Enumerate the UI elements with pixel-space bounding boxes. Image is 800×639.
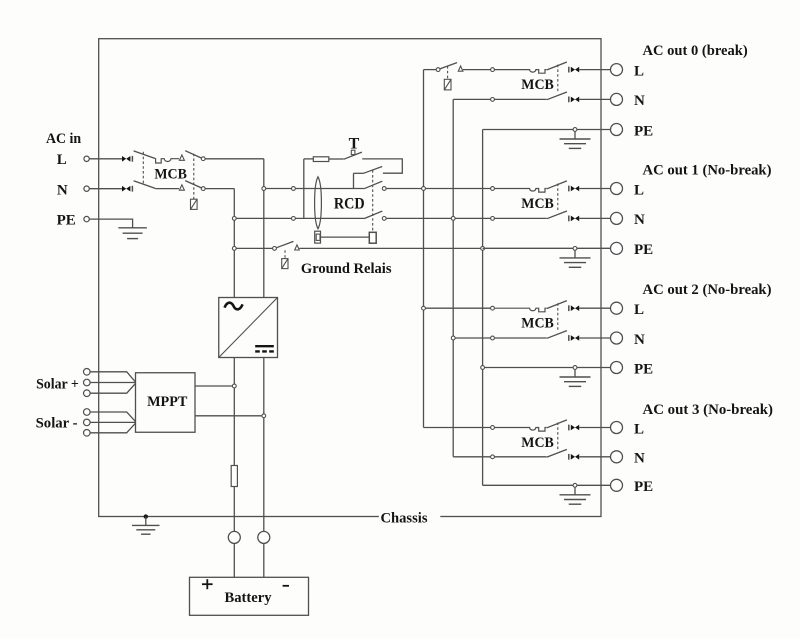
svg-text:L: L	[634, 302, 644, 318]
svg-text:N: N	[57, 182, 68, 198]
svg-text:RCD: RCD	[334, 195, 365, 212]
svg-text:N: N	[634, 332, 645, 348]
svg-text:PE: PE	[57, 213, 76, 229]
svg-text:T: T	[349, 135, 360, 152]
svg-text:PE: PE	[634, 242, 653, 258]
svg-text:MCB: MCB	[521, 77, 554, 93]
svg-text:PE: PE	[634, 123, 653, 139]
svg-text:AC out 1 (No-break): AC out 1 (No-break)	[643, 162, 772, 178]
svg-text:L: L	[634, 421, 644, 437]
svg-text:N: N	[634, 451, 645, 467]
svg-text:N: N	[634, 93, 645, 109]
svg-text:MCB: MCB	[521, 435, 554, 451]
svg-text:AC out 2 (No-break): AC out 2 (No-break)	[643, 282, 772, 298]
svg-text:Battery: Battery	[225, 590, 272, 606]
svg-text:Chassis: Chassis	[381, 511, 428, 527]
svg-text:PE: PE	[634, 479, 653, 495]
svg-text:AC out 0 (break): AC out 0 (break)	[643, 43, 748, 59]
svg-text:N: N	[634, 212, 645, 228]
svg-text:MCB: MCB	[154, 166, 187, 182]
svg-text:MPPT: MPPT	[147, 394, 187, 410]
svg-text:AC out 3 (No-break): AC out 3 (No-break)	[643, 402, 774, 418]
svg-text:MCB: MCB	[521, 316, 554, 332]
svg-text:AC in: AC in	[46, 131, 82, 147]
svg-text:PE: PE	[634, 361, 653, 377]
svg-text:MCB: MCB	[521, 196, 554, 212]
svg-text:L: L	[57, 152, 67, 168]
svg-text:L: L	[634, 182, 644, 198]
svg-text:Ground Relais: Ground Relais	[301, 261, 392, 277]
svg-text:L: L	[634, 63, 644, 79]
svg-text:Solar -: Solar -	[36, 416, 78, 432]
svg-text:Solar +: Solar +	[36, 376, 79, 392]
